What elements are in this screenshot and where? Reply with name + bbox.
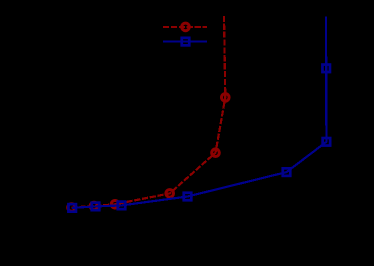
red series markers	[68, 94, 229, 212]
red series dashed line	[72, 16, 226, 208]
blue series solid line	[72, 17, 326, 208]
blue series markers	[68, 65, 330, 212]
legend red entry	[163, 26, 207, 28]
legend blue entry	[163, 40, 207, 42]
